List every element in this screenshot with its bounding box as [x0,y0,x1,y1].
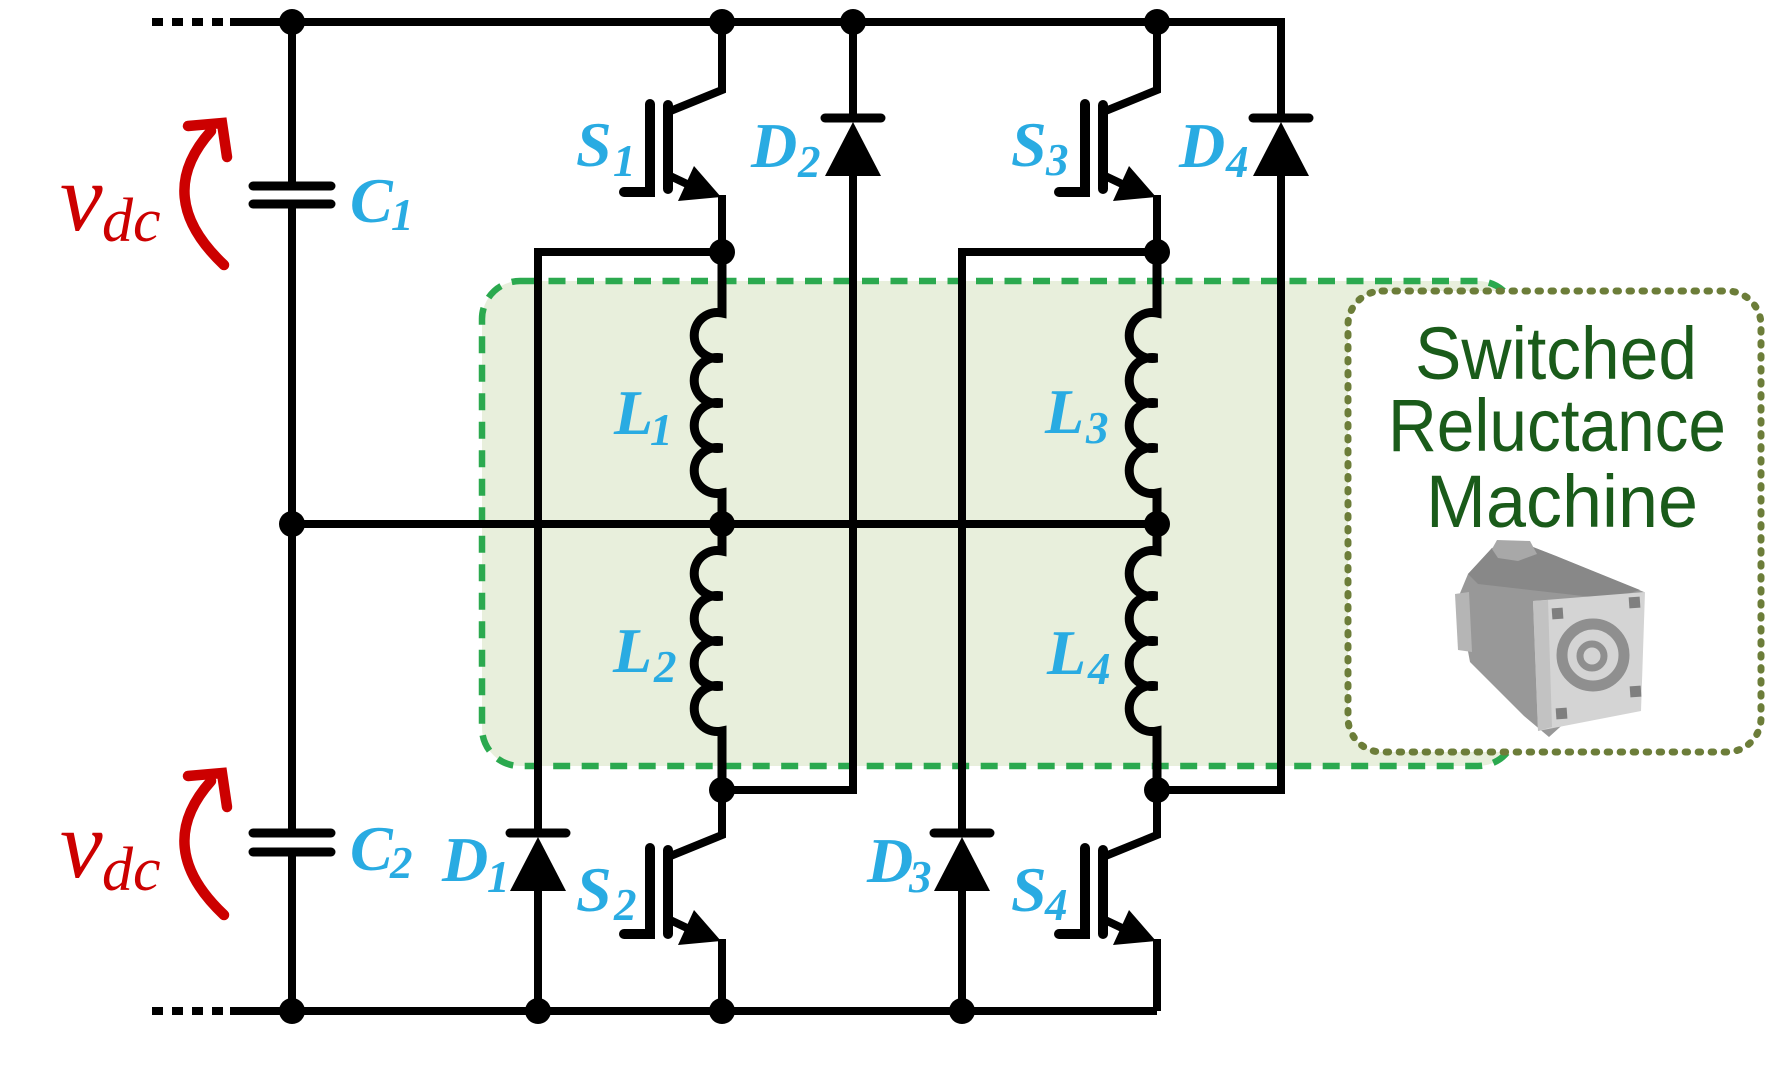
svg-text:4: 4 [1225,137,1249,187]
svg-text:1: 1 [391,190,414,240]
wire: S3 emitter to D3 return [962,252,1157,829]
svg-text:2: 2 [653,642,677,692]
machine winding zone (green dashed box) [482,281,1516,766]
node: L4 bottom / S4 collector [1144,777,1170,803]
svg-text:dc: dc [102,187,161,255]
node: mid rail / capacitor midpoint [279,511,305,537]
node: S3 emitter / L3 top [1144,239,1170,265]
v_dc source arrow (bottom) [184,773,227,915]
inductor L2 [694,524,722,790]
transistor S4 (IGBT) [1059,790,1157,1011]
node: mid rail / L1-L2 junction [709,511,735,537]
svg-text:v: v [60,144,103,251]
inductor L1 [694,252,722,524]
node: bottom rail / capacitor branch [279,998,305,1024]
svg-text:1: 1 [487,852,510,902]
v_dc source arrow (top) [184,123,227,265]
node: top rail / S3 collector [1144,9,1170,35]
svg-text:S: S [1011,854,1047,925]
svg-text:3: 3 [1085,403,1109,453]
svg-text:v: v [60,791,103,898]
node: top rail / D2 cathode [840,9,866,35]
node: mid rail / L3-L4 junction [1144,511,1170,537]
svg-text:Reluctance: Reluctance [1388,384,1726,467]
switched reluctance machine label box [1348,291,1761,752]
node: bottom rail / S2 emitter [709,998,735,1024]
wire: S1 emitter to D1 return [538,252,722,829]
label: Switched Reluctance Machine [1388,312,1726,543]
node: top rail / S1 collector [709,9,735,35]
svg-text:3: 3 [1045,135,1069,185]
svg-text:Switched: Switched [1415,312,1697,395]
svg-text:S: S [576,109,612,180]
svg-text:2: 2 [389,838,413,888]
svg-text:D: D [1178,110,1225,181]
wire: bottom rail dashed stub [152,1007,228,1015]
capacitor C2 [253,833,331,852]
wire: mid rail [292,520,1157,528]
svg-text:dc: dc [102,836,161,904]
svg-text:C: C [350,165,394,236]
node: bottom rail / D3 anode [949,998,975,1024]
svg-text:L: L [1046,617,1086,688]
transistor S2 (IGBT) [624,790,722,1011]
svg-text:L: L [613,377,653,448]
svg-text:2: 2 [613,880,637,930]
diode D3 [934,833,990,1011]
svg-text:Machine: Machine [1426,460,1698,543]
svg-text:4: 4 [1087,644,1111,694]
diode D1 [510,833,566,1011]
svg-text:L: L [612,615,652,686]
svg-text:S: S [1011,109,1047,180]
capacitor C1 [253,186,331,204]
svg-text:S: S [576,854,612,925]
node: top rail / capacitor branch [279,9,305,35]
inductor L4 [1129,524,1157,790]
motor icon [1455,540,1645,737]
svg-text:4: 4 [1044,880,1068,930]
wire: top rail with corner down to D4 [230,22,1281,116]
node: S1 emitter / L1 top [709,239,735,265]
node: L2 bottom / S2 collector [709,777,735,803]
svg-text:1: 1 [650,405,673,455]
svg-text:D: D [441,824,488,895]
inductor L3 [1129,252,1157,524]
svg-text:C: C [350,813,394,884]
wire: top rail dashed stub [152,18,228,26]
wire: bottom rail [230,1007,1157,1015]
svg-text:D: D [866,825,913,896]
wire: left capacitor branch [288,22,296,182]
svg-text:D: D [750,110,797,181]
node: bottom rail / D1 anode [525,998,551,1024]
svg-text:1: 1 [613,136,636,186]
diode D4 [1157,118,1309,790]
transistor S3 (IGBT) [1059,22,1157,252]
svg-text:L: L [1044,376,1084,447]
transistor S1 (IGBT) [624,22,722,252]
diode D2 [722,22,881,790]
svg-text:2: 2 [797,137,821,187]
svg-text:3: 3 [908,852,932,902]
